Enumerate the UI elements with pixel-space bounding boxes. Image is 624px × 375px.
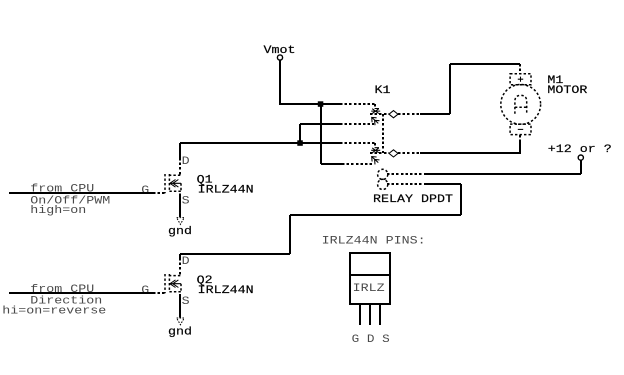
pole 2 NO contact arrow	[372, 157, 380, 165]
wire coil bottom lead to Q2 drain	[180, 184, 461, 258]
ground Q2	[168, 318, 192, 338]
transistor Q1	[141, 156, 253, 208]
net label from CPU / On/Off/PWM / high=on	[30, 183, 110, 217]
pole 1 common lead	[398, 113, 420, 115]
Q1 gate plate	[164, 174, 166, 193]
svg-text:RELAY DPDT: RELAY DPDT	[373, 194, 453, 206]
svg-text:IRLZ: IRLZ	[353, 283, 385, 295]
pole 2 NC lead	[340, 143, 375, 147]
wire from CPU to Q1 gate	[9, 192, 153, 194]
motor - sign	[518, 128, 523, 130]
motor - pin	[519, 135, 521, 141]
wire Vmot to relay NC1 lead	[279, 103, 340, 105]
wire Q1 drain to relay NC2 lead	[180, 142, 340, 144]
pole 1 common diamond	[389, 111, 398, 118]
pole 1 NO contact arrow	[372, 117, 380, 125]
wire Vmot stem	[279, 60, 281, 104]
TO-220 leg D	[369, 304, 371, 325]
Q1 source stub	[169, 183, 181, 191]
wire pole2 common to motor -	[420, 141, 520, 154]
svg-text:IRLZ44N PINS:: IRLZ44N PINS:	[322, 235, 426, 247]
svg-text:high=on: high=on	[30, 205, 86, 217]
svg-text:IRLZ44N: IRLZ44N	[198, 185, 254, 197]
transistor Q2	[141, 256, 253, 308]
junction Q1 drain branch	[297, 140, 303, 146]
svg-text:G: G	[141, 285, 149, 297]
node +12 or ?	[548, 144, 612, 160]
motor + pin	[519, 64, 521, 74]
pole 2 common line	[370, 152, 389, 154]
svg-text:MOTOR: MOTOR	[547, 85, 587, 97]
TO-220 leg S	[379, 304, 381, 325]
pole 1 common line	[370, 113, 389, 115]
Q1 body arrow	[170, 180, 181, 188]
motor + terminal box	[510, 74, 531, 85]
svg-text:from CPU: from CPU	[30, 284, 94, 296]
wire from CPU to Q2 gate	[9, 292, 153, 294]
Q1 gate lead	[153, 192, 165, 194]
svg-text:hi=on=reverse: hi=on=reverse	[2, 305, 106, 317]
wire junction down to pole2 NO lead	[321, 104, 342, 164]
Q2 body arrow	[170, 280, 181, 288]
Q2 channel	[168, 274, 170, 292]
pole 1 NO lead	[340, 123, 374, 125]
motor - terminal box	[510, 124, 531, 135]
svg-text:+12 or ?: +12 or ?	[548, 144, 612, 156]
ground Q1	[168, 218, 192, 238]
Q1 channel	[168, 174, 170, 192]
TO-220 package body	[350, 275, 390, 304]
node Vmot	[264, 45, 296, 60]
motor M1	[501, 64, 588, 141]
TO-220 leg G	[359, 304, 361, 325]
motor A glyph	[515, 95, 527, 113]
coil K1	[378, 169, 388, 179]
pole 2 common diamond	[389, 150, 398, 157]
svg-text:D: D	[182, 156, 190, 168]
wire Q1 drain stem	[179, 143, 181, 158]
junction Vmot/pole2 branch	[318, 101, 324, 107]
svg-text:G: G	[141, 185, 149, 197]
svg-text:IRLZ44N: IRLZ44N	[198, 285, 254, 297]
svg-text:gnd: gnd	[168, 226, 192, 238]
svg-text:S: S	[182, 296, 190, 308]
motor + sign	[518, 77, 523, 82]
pole 1 NC lead	[340, 104, 375, 108]
svg-text:G D S: G D S	[352, 334, 390, 346]
Q1 drain pin lead	[179, 158, 181, 175]
svg-text:gnd: gnd	[168, 326, 192, 338]
Q2 gate lead	[153, 292, 165, 294]
pole 2 common lead	[398, 152, 420, 154]
coil lead top	[387, 173, 425, 175]
svg-text:D: D	[182, 256, 190, 268]
wire branch up to pole1 NO lead	[300, 124, 340, 143]
Q2 source stub	[169, 284, 181, 292]
link bar between poles	[382, 114, 384, 153]
wire pole1 common to motor +	[420, 64, 520, 114]
relay K1	[340, 85, 453, 206]
pole 1 NC contact	[371, 109, 380, 114]
wire Q2 source	[179, 294, 181, 317]
net label from CPU / Direction / hi=on=reverse	[2, 284, 106, 318]
Q2 gate plate	[164, 274, 166, 293]
pole 2 NC contact	[371, 148, 380, 153]
svg-text:K1: K1	[375, 85, 391, 97]
TO-220 package tab	[350, 253, 390, 275]
motor body circle	[501, 85, 541, 125]
wire +12 to coil top lead	[425, 160, 581, 174]
Q2 drain pin lead	[179, 258, 181, 275]
svg-text:from CPU: from CPU	[30, 183, 94, 195]
wire Q1 source	[179, 194, 181, 218]
pole 2 NO lead	[342, 163, 374, 165]
coil lead bottom	[387, 183, 425, 185]
svg-text:S: S	[182, 196, 190, 208]
